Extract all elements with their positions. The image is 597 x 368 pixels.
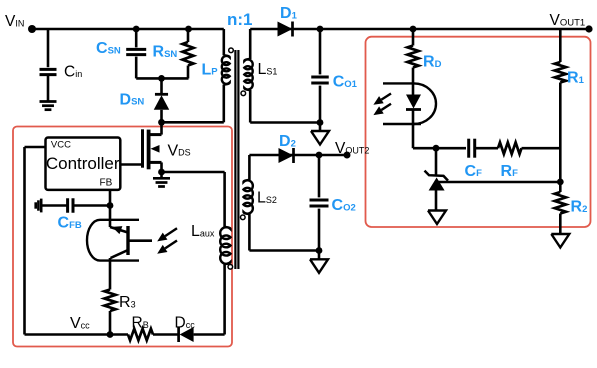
svg-text:FB: FB xyxy=(100,177,113,188)
svg-text:n:1: n:1 xyxy=(227,10,253,29)
svg-text:VCC: VCC xyxy=(51,140,71,151)
svg-text:Controller: Controller xyxy=(46,154,120,173)
